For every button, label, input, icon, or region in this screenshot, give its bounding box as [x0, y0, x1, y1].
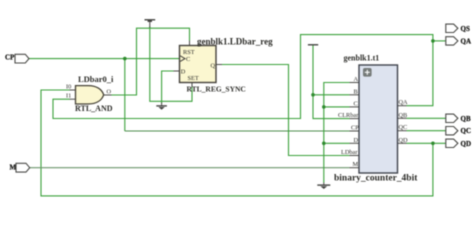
svg-text:CP: CP	[351, 125, 359, 132]
wire const1 net: supply bar stem to B row and CLRbar row	[313, 45, 350, 118]
wire M net: M port to counter M pin	[30, 167, 350, 169]
svg-text:QD: QD	[461, 140, 472, 148]
svg-text:RTL_REG_SYNC: RTL_REG_SYNC	[187, 85, 246, 94]
svg-text:SET: SET	[188, 75, 199, 82]
svg-text:RTL_AND: RTL_AND	[75, 104, 113, 113]
svg-text:B: B	[354, 88, 358, 95]
svg-text:RST: RST	[183, 49, 195, 56]
counter genblk1.t1 box	[359, 65, 398, 173]
wire CP net: riser from junction down to CP row	[124, 59, 126, 131]
counter genblk1.t1 right pin stubs	[398, 106, 407, 144]
node B row junction	[311, 93, 315, 97]
supply const1 bar	[308, 44, 318, 46]
svg-text:O: O	[107, 88, 112, 95]
wire QD net: counter QD row to QD port and down around to AND I0	[407, 142, 446, 144]
node QD junction	[431, 142, 435, 146]
wire CP net: CP port to register C pin	[29, 58, 181, 60]
svg-text:CP: CP	[5, 54, 15, 62]
wire const0 gnd3 net: A row corner, spine down to ground, C and D branches	[324, 83, 350, 183]
register genblk1.LDbar_reg SET stub	[191, 83, 193, 87]
svg-text:QB: QB	[461, 115, 471, 123]
svg-text:I1: I1	[66, 93, 71, 100]
svg-text:QB: QB	[399, 112, 408, 119]
svg-text:I0: I0	[66, 84, 71, 91]
svg-text:QS: QS	[461, 25, 470, 33]
svg-text:genblk1.t1: genblk1.t1	[344, 54, 380, 63]
ground 1 (top, feeds down)	[145, 20, 156, 28]
svg-text:A: A	[354, 76, 359, 83]
wire QC row to port	[407, 130, 446, 132]
wire QA port stub from junction	[433, 40, 446, 42]
node C row junction	[322, 105, 326, 109]
register genblk1.LDbar_reg D stub	[174, 70, 180, 72]
wire RST net: AND output riser and top run to register top pin	[111, 28, 190, 95]
and-gate LDbar0_i pin stubs	[70, 89, 76, 91]
svg-text:genblk1.LDbar_reg: genblk1.LDbar_reg	[197, 36, 273, 46]
node QA junction	[431, 39, 435, 43]
svg-text:QA: QA	[461, 37, 472, 45]
svg-text:QC: QC	[461, 127, 472, 135]
and-gate LDbar0_i body	[76, 86, 104, 104]
svg-text:Q: Q	[211, 62, 216, 69]
svg-text:D: D	[354, 137, 359, 144]
wire QB row to port	[407, 117, 446, 119]
svg-text:QC: QC	[399, 124, 408, 131]
ground 3 (below counter inputs)	[317, 183, 330, 186]
svg-text:QD: QD	[399, 137, 409, 144]
port QS (top right, unconnected)	[446, 24, 458, 32]
node D row junction	[322, 142, 326, 146]
port QC	[446, 127, 458, 135]
counter plus icon	[363, 68, 372, 77]
svg-text:LDbar0_i: LDbar0_i	[78, 74, 114, 84]
port QD	[446, 139, 458, 147]
svg-text:LDbar: LDbar	[341, 149, 358, 156]
svg-text:D: D	[181, 69, 186, 76]
register genblk1.LDbar_reg Q stub	[216, 64, 222, 66]
register clock wedge	[180, 56, 185, 62]
svg-text:C: C	[354, 100, 358, 107]
node CP junction	[123, 57, 127, 61]
wire D net: register D pin to ground2	[162, 71, 175, 103]
wire const0 gnd1 spine down to SET run	[150, 27, 192, 102]
wire Q net: register Q to counter LDbar pin	[222, 65, 350, 156]
svg-text:M: M	[353, 161, 359, 168]
svg-text:QA: QA	[399, 99, 409, 106]
svg-text:CLRbar: CLRbar	[338, 112, 359, 119]
svg-text:C: C	[186, 56, 190, 63]
port QA	[446, 37, 458, 45]
counter genblk1.t1 left pin stubs	[350, 83, 360, 168]
register genblk1.LDbar_reg box	[180, 46, 217, 83]
wire QA net: counter QA row right then up to QA port, top run back left and down to AND I1	[53, 35, 433, 119]
ground 2 (below register, D net)	[156, 103, 167, 106]
svg-text:binary_counter_4bit: binary_counter_4bit	[334, 174, 418, 184]
port QB	[446, 114, 458, 122]
